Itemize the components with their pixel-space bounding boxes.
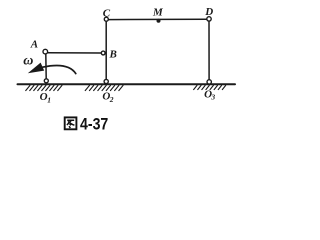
svg-text:A: A bbox=[30, 39, 38, 51]
svg-text:D: D bbox=[204, 6, 213, 18]
svg-text:C: C bbox=[103, 8, 111, 20]
svg-text:1: 1 bbox=[47, 95, 51, 104]
svg-text:M: M bbox=[152, 7, 164, 19]
svg-text:3: 3 bbox=[210, 92, 215, 101]
svg-text:4-37: 4-37 bbox=[80, 115, 108, 134]
svg-text:B: B bbox=[109, 49, 117, 61]
svg-text:ω: ω bbox=[23, 54, 33, 69]
svg-text:2: 2 bbox=[109, 95, 114, 104]
